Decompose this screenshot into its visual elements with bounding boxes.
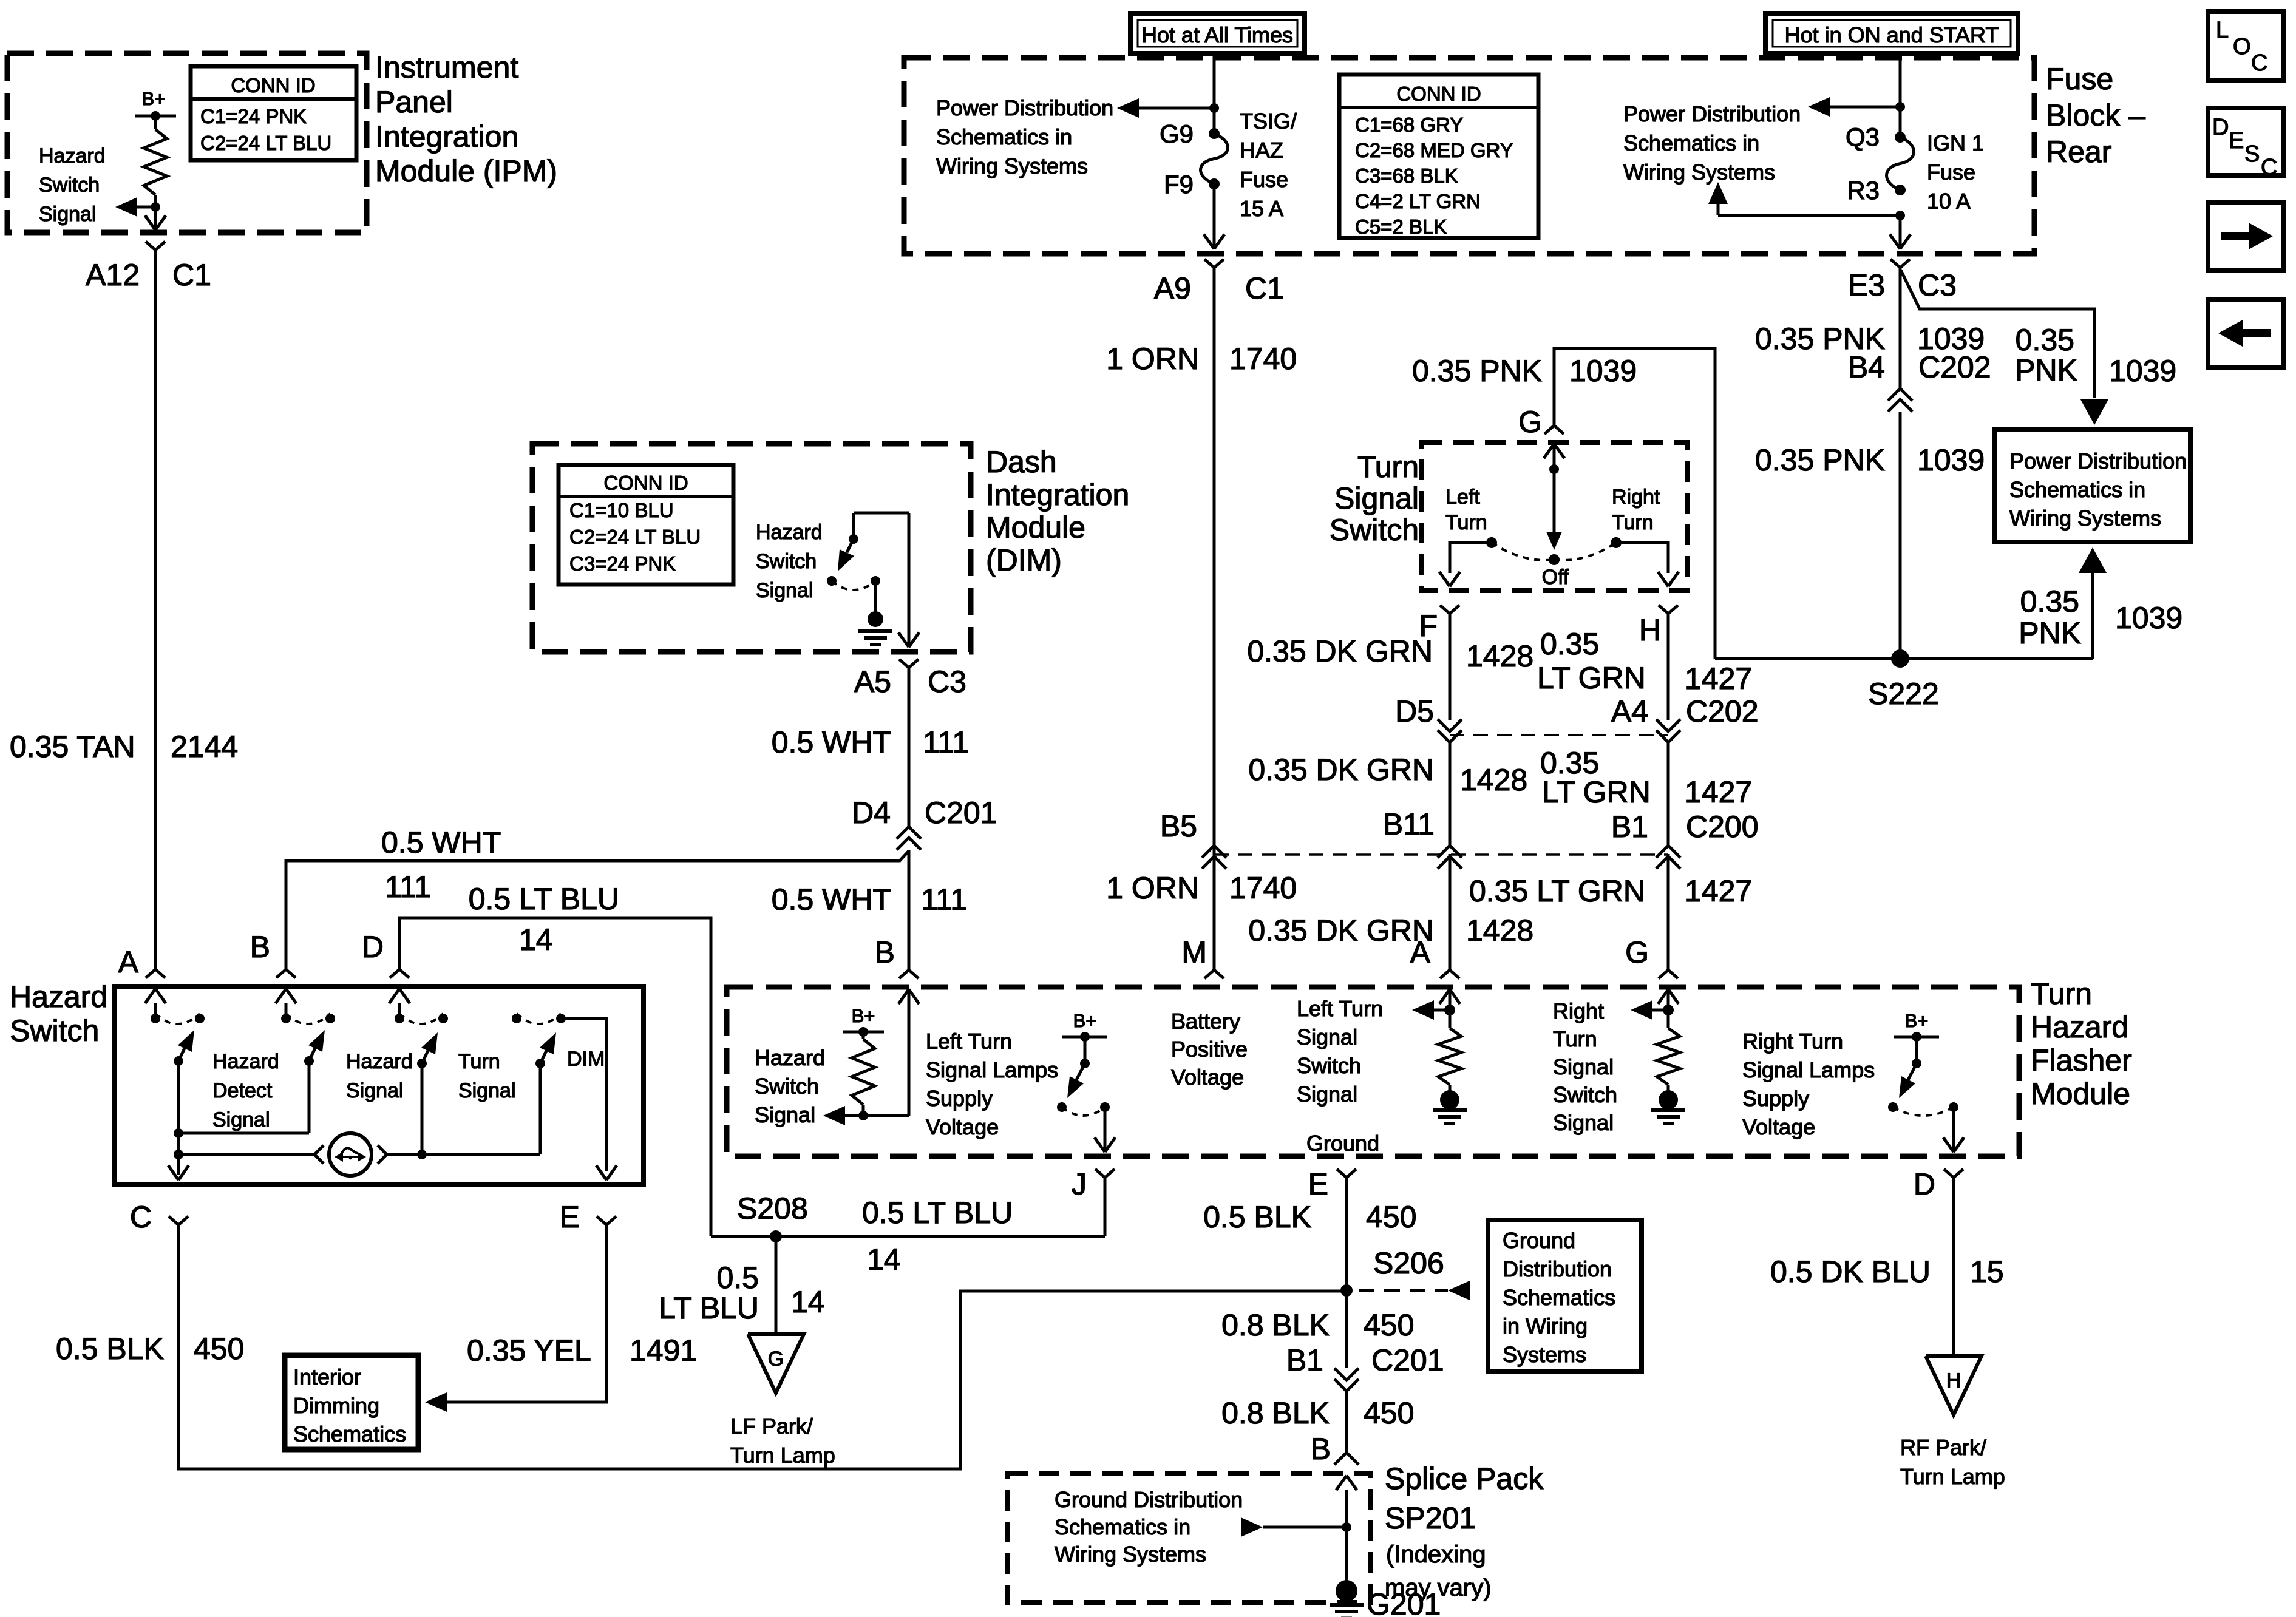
svg-text:111: 111 bbox=[923, 725, 969, 759]
dashed arc of turn signal switch bbox=[1492, 543, 1554, 560]
connector B (hazard switch) bbox=[276, 969, 286, 978]
resistor (IPM hazard switch signal pull-up) bbox=[154, 116, 157, 129]
svg-text:C202: C202 bbox=[1686, 694, 1759, 728]
svg-text:C: C bbox=[2261, 155, 2277, 180]
svg-text:0.35 PNK: 0.35 PNK bbox=[1755, 443, 1885, 477]
svg-text:Signal: Signal bbox=[1553, 1110, 1614, 1135]
node: splice below IGN fuse bbox=[1895, 211, 1905, 220]
nav box: next page arrow bbox=[2208, 202, 2283, 270]
svg-text:PNK: PNK bbox=[2019, 616, 2081, 650]
module box: Turn Signal Switch, dashed bbox=[1422, 442, 1687, 591]
node: splice to power distribution (right top) bbox=[1895, 102, 1905, 112]
svg-text:E: E bbox=[560, 1200, 580, 1234]
arrow to Power Distribution Schematics (left) bbox=[1136, 107, 1214, 110]
svg-text:Positive: Positive bbox=[1171, 1037, 1248, 1062]
wire: 0.35 LT GRN 1427 (H to A4) bbox=[1667, 614, 1670, 720]
svg-text:Signal: Signal bbox=[212, 1108, 270, 1131]
svg-text:(DIM): (DIM) bbox=[986, 543, 1062, 577]
svg-text:RF Park/: RF Park/ bbox=[1900, 1435, 1986, 1460]
svg-text:D: D bbox=[2212, 115, 2229, 140]
svg-text:C5=2 BLK: C5=2 BLK bbox=[1355, 215, 1447, 238]
svg-text:Supply: Supply bbox=[926, 1086, 993, 1111]
svg-text:Right Turn: Right Turn bbox=[1742, 1029, 1843, 1054]
svg-text:Left: Left bbox=[1445, 486, 1480, 509]
triangle connector G: LF Park/Turn Lamp bbox=[748, 1334, 804, 1393]
resistor: left turn signal switch signal bbox=[1438, 1028, 1461, 1085]
svg-text:Schematics in: Schematics in bbox=[1055, 1514, 1190, 1539]
svg-text:0.35 DK GRN: 0.35 DK GRN bbox=[1248, 914, 1434, 947]
svg-text:SP201: SP201 bbox=[1385, 1501, 1476, 1535]
svg-text:C3=24 PNK: C3=24 PNK bbox=[569, 552, 676, 575]
svg-text:0.5 LT BLU: 0.5 LT BLU bbox=[862, 1196, 1013, 1230]
lamp symbol bbox=[329, 1133, 372, 1176]
svg-text:1491: 1491 bbox=[630, 1334, 697, 1368]
connector B5 on orange wire bbox=[1202, 846, 1226, 858]
svg-text:0.5 WHT: 0.5 WHT bbox=[772, 883, 891, 917]
svg-text:Left Turn: Left Turn bbox=[1297, 996, 1383, 1021]
svg-text:Splice Pack: Splice Pack bbox=[1385, 1462, 1544, 1496]
svg-text:M: M bbox=[1181, 935, 1207, 969]
connector B (flasher) bbox=[899, 970, 909, 978]
svg-text:Signal: Signal bbox=[39, 203, 97, 226]
svg-text:1039: 1039 bbox=[1569, 354, 1637, 388]
svg-text:CONN ID: CONN ID bbox=[603, 472, 688, 494]
dashed link to ground distribution note bbox=[1359, 1289, 1448, 1292]
svg-text:Voltage: Voltage bbox=[1742, 1114, 1815, 1139]
connector A5/C3 bbox=[899, 659, 909, 668]
arrow: Hazard Switch Signal (IPM) bbox=[135, 206, 155, 209]
svg-text:C1=68 GRY: C1=68 GRY bbox=[1355, 114, 1463, 136]
connector E (flasher) bbox=[1337, 1169, 1347, 1178]
svg-text:1039: 1039 bbox=[1917, 443, 1985, 477]
svg-text:C1: C1 bbox=[1245, 271, 1284, 305]
svg-text:L: L bbox=[2216, 18, 2229, 43]
svg-text:2144: 2144 bbox=[171, 730, 238, 764]
svg-text:Ground: Ground bbox=[1306, 1131, 1379, 1156]
svg-text:Switch: Switch bbox=[1297, 1053, 1361, 1078]
pin arrow D bbox=[398, 1003, 401, 1019]
svg-text:Hot in ON and START: Hot in ON and START bbox=[1785, 22, 1999, 47]
svg-text:1740: 1740 bbox=[1229, 871, 1297, 905]
svg-text:Signal Lamps: Signal Lamps bbox=[926, 1057, 1058, 1082]
svg-text:0.35 DK GRN: 0.35 DK GRN bbox=[1247, 634, 1433, 668]
connector A9/C1 bbox=[1204, 259, 1214, 268]
svg-text:C3=68 BLK: C3=68 BLK bbox=[1355, 164, 1458, 187]
svg-text:TSIG/: TSIG/ bbox=[1240, 109, 1297, 134]
svg-text:1740: 1740 bbox=[1229, 342, 1297, 376]
svg-text:15: 15 bbox=[1970, 1255, 2004, 1289]
svg-text:A5: A5 bbox=[854, 665, 891, 699]
svg-text:0.5 LT BLU: 0.5 LT BLU bbox=[469, 882, 619, 916]
svg-text:A: A bbox=[118, 945, 139, 979]
svg-text:Switch: Switch bbox=[756, 550, 817, 573]
svg-text:0.8 BLK: 0.8 BLK bbox=[1221, 1308, 1330, 1342]
svg-text:1428: 1428 bbox=[1460, 763, 1527, 797]
wire: common feed into switch bbox=[1544, 444, 1554, 458]
module box: Splice Pack SP201, dashed bbox=[1007, 1473, 1370, 1602]
svg-text:111: 111 bbox=[921, 883, 967, 917]
svg-text:Hazard: Hazard bbox=[756, 521, 823, 544]
svg-text:1 ORN: 1 ORN bbox=[1106, 342, 1199, 376]
ground (DIM) bbox=[874, 581, 877, 612]
pin arrow G (flasher) + left arrow bbox=[1658, 989, 1668, 1004]
svg-text:G: G bbox=[1625, 935, 1649, 969]
pin arrow A bbox=[154, 1003, 157, 1019]
svg-text:0.35 TAN: 0.35 TAN bbox=[10, 730, 135, 764]
svg-text:HAZ: HAZ bbox=[1240, 138, 1283, 163]
wire: 0.5 WHT 111 (D4 to flasher B) bbox=[908, 850, 911, 970]
wire: 0.35 LT GRN 1427 (B1 to flasher G) bbox=[1667, 854, 1670, 970]
svg-text:C2=68 MED GRY: C2=68 MED GRY bbox=[1355, 139, 1513, 161]
svg-text:Left Turn: Left Turn bbox=[926, 1029, 1012, 1054]
svg-text:Instrument: Instrument bbox=[375, 50, 518, 84]
svg-text:Module: Module bbox=[986, 510, 1085, 544]
svg-text:1039: 1039 bbox=[2109, 354, 2176, 388]
svg-text:1427: 1427 bbox=[1685, 775, 1752, 809]
svg-text:E: E bbox=[1308, 1167, 1328, 1201]
svg-text:B: B bbox=[250, 930, 270, 964]
wire: 0.5 LT BLU 14 from D pin right and down to S208 bbox=[399, 918, 711, 1236]
tag box: Hot in ON and START bbox=[1765, 13, 2018, 53]
wire branch: 0.35 PNK 1039 to power distribution box bbox=[1901, 270, 2094, 398]
svg-text:Hazard: Hazard bbox=[212, 1050, 279, 1073]
svg-text:in Wiring: in Wiring bbox=[1503, 1314, 1588, 1338]
box: Interior Dimming Schematics bbox=[285, 1355, 418, 1449]
svg-text:Turn: Turn bbox=[1445, 511, 1487, 534]
svg-text:Fuse: Fuse bbox=[1240, 167, 1288, 192]
inline connector dashed line C202 bbox=[1450, 734, 1668, 736]
svg-text:Off: Off bbox=[1542, 566, 1569, 589]
svg-text:Hazard: Hazard bbox=[10, 980, 107, 1014]
svg-text:Turn: Turn bbox=[458, 1050, 500, 1073]
wire inside splice pack bbox=[1345, 1490, 1348, 1581]
svg-text:Switch: Switch bbox=[755, 1074, 819, 1099]
svg-text:D: D bbox=[1914, 1167, 1935, 1201]
svg-text:Signal Lamps: Signal Lamps bbox=[1742, 1057, 1875, 1082]
svg-text:Fuse: Fuse bbox=[2046, 62, 2113, 96]
svg-text:Wiring Systems: Wiring Systems bbox=[2009, 506, 2161, 531]
svg-text:15 A: 15 A bbox=[1240, 196, 1283, 221]
wire: 0.35 DK GRN 1428 (F to D5) bbox=[1449, 614, 1452, 720]
svg-text:0.35 PNK: 0.35 PNK bbox=[1412, 354, 1542, 388]
svg-text:H: H bbox=[1946, 1369, 1961, 1392]
wire: S208 to LF lamp bbox=[775, 1236, 778, 1333]
svg-text:C1: C1 bbox=[172, 258, 211, 292]
svg-text:IGN 1: IGN 1 bbox=[1927, 131, 1984, 155]
wire: fuse output to A9 bbox=[1213, 184, 1216, 248]
svg-text:CONN ID: CONN ID bbox=[1396, 83, 1481, 105]
wire: 0.35 DK GRN 1428 (D5 to B11) bbox=[1449, 742, 1452, 846]
svg-text:14: 14 bbox=[867, 1242, 901, 1276]
svg-text:450: 450 bbox=[1364, 1396, 1414, 1430]
svg-text:H: H bbox=[1639, 613, 1661, 647]
wire: ignition feed into IGN 1 fuse bbox=[1899, 53, 1902, 137]
svg-text:Hazard: Hazard bbox=[346, 1050, 413, 1073]
wire: 0.5 LT BLU 14 (S208 to J) bbox=[711, 1235, 1105, 1238]
svg-text:Wiring Systems: Wiring Systems bbox=[1055, 1542, 1206, 1567]
svg-text:Wiring Systems: Wiring Systems bbox=[936, 154, 1088, 178]
svg-text:J: J bbox=[1072, 1167, 1087, 1201]
svg-text:G: G bbox=[1518, 405, 1542, 439]
svg-text:Switch: Switch bbox=[1330, 513, 1419, 547]
connector G (turn signal switch) bbox=[1544, 425, 1554, 434]
svg-text:Voltage: Voltage bbox=[926, 1114, 999, 1139]
switch 3: turn signal bbox=[395, 1014, 404, 1023]
wire: 0.35 LT GRN 1427 (A4 to B1) bbox=[1667, 742, 1670, 846]
svg-text:A12: A12 bbox=[86, 258, 140, 292]
svg-text:F9: F9 bbox=[1164, 170, 1194, 198]
svg-text:C1=10 BLU: C1=10 BLU bbox=[569, 499, 674, 521]
svg-text:C2=24 LT BLU: C2=24 LT BLU bbox=[200, 132, 331, 154]
wire: 0.35 PNK 1039 down to B4 bbox=[1899, 268, 1902, 388]
svg-text:Hazard: Hazard bbox=[755, 1045, 825, 1070]
svg-text:10 A: 10 A bbox=[1927, 189, 1971, 214]
svg-text:0.5: 0.5 bbox=[716, 1261, 759, 1295]
svg-text:Detect: Detect bbox=[212, 1079, 273, 1102]
svg-text:450: 450 bbox=[1366, 1200, 1416, 1234]
svg-text:O: O bbox=[2233, 34, 2251, 59]
svg-text:Schematics: Schematics bbox=[1503, 1285, 1615, 1310]
svg-text:B4: B4 bbox=[1848, 350, 1885, 384]
CONN ID table (DIM) bbox=[559, 465, 733, 585]
svg-text:0.5 DK BLU: 0.5 DK BLU bbox=[1770, 1255, 1931, 1289]
svg-text:Hazard: Hazard bbox=[2031, 1010, 2128, 1044]
connector G (flasher) bbox=[1659, 970, 1668, 978]
svg-text:Hot at All Times: Hot at All Times bbox=[1141, 22, 1293, 47]
svg-text:Distribution: Distribution bbox=[1503, 1256, 1612, 1281]
svg-text:Integration: Integration bbox=[375, 120, 518, 154]
svg-text:Signal: Signal bbox=[756, 579, 813, 602]
svg-text:S: S bbox=[2244, 141, 2260, 167]
svg-text:B1: B1 bbox=[1611, 810, 1648, 844]
splice S208 bbox=[770, 1230, 782, 1242]
contact: Right Turn bbox=[1611, 537, 1622, 548]
svg-text:B11: B11 bbox=[1383, 807, 1435, 841]
svg-text:Supply: Supply bbox=[1742, 1086, 1809, 1111]
svg-text:0.35: 0.35 bbox=[2020, 585, 2079, 619]
svg-text:CONN ID: CONN ID bbox=[231, 74, 315, 97]
wire: switch3 to lamp rail bbox=[421, 1063, 424, 1154]
wire: 0.5 BLK 450 from C down to ground run bbox=[178, 1225, 1347, 1469]
connector E3/C3 bbox=[1890, 259, 1900, 268]
svg-text:Right: Right bbox=[1612, 486, 1660, 509]
wire: J to S208 junction bbox=[1104, 1178, 1107, 1236]
svg-text:0.35: 0.35 bbox=[1540, 627, 1599, 661]
svg-text:C202: C202 bbox=[1918, 350, 1991, 384]
svg-text:Hazard: Hazard bbox=[39, 144, 106, 168]
connector B into splice pack bbox=[1334, 1453, 1359, 1465]
svg-text:Turn: Turn bbox=[2031, 977, 2092, 1011]
wire: switch1 to C pin bbox=[177, 1061, 180, 1175]
svg-text:0.5 WHT: 0.5 WHT bbox=[772, 725, 891, 759]
svg-text:Schematics in: Schematics in bbox=[1623, 131, 1759, 155]
wire: 0.5 BLK 450 (flasher E to S206) bbox=[1345, 1178, 1348, 1290]
contact: Off bbox=[1549, 554, 1560, 565]
box: Ground Distribution Schematics in Wiring Systems bbox=[1488, 1220, 1642, 1372]
svg-text:Fuse: Fuse bbox=[1927, 160, 1975, 185]
svg-text:A: A bbox=[1410, 935, 1431, 969]
svg-text:LF Park/: LF Park/ bbox=[730, 1414, 813, 1439]
svg-text:DIM: DIM bbox=[567, 1048, 605, 1071]
svg-text:Module (IPM): Module (IPM) bbox=[375, 154, 557, 188]
svg-text:G: G bbox=[768, 1347, 784, 1371]
svg-text:Module: Module bbox=[2031, 1077, 2130, 1111]
ground: left turn resistor bbox=[1440, 1090, 1459, 1110]
svg-text:PNK: PNK bbox=[2015, 353, 2077, 387]
wire: switch2 join bbox=[308, 1061, 311, 1133]
svg-text:Turn: Turn bbox=[1612, 511, 1654, 534]
svg-text:C3: C3 bbox=[1918, 268, 1957, 302]
svg-text:Signal: Signal bbox=[1553, 1054, 1614, 1079]
svg-text:0.35 LT GRN: 0.35 LT GRN bbox=[1469, 874, 1645, 908]
svg-text:0.35: 0.35 bbox=[2016, 323, 2074, 357]
svg-text:1428: 1428 bbox=[1466, 639, 1533, 673]
svg-text:Signal: Signal bbox=[346, 1079, 404, 1102]
nav box: LOC bbox=[2208, 12, 2283, 81]
svg-text:B+: B+ bbox=[852, 1005, 875, 1026]
svg-text:Schematics in: Schematics in bbox=[936, 124, 1072, 149]
svg-text:0.5 BLK: 0.5 BLK bbox=[1203, 1200, 1311, 1234]
svg-text:1427: 1427 bbox=[1685, 874, 1752, 908]
svg-text:Schematics: Schematics bbox=[293, 1422, 406, 1446]
svg-text:Voltage: Voltage bbox=[1171, 1065, 1244, 1090]
svg-text:S206: S206 bbox=[1373, 1246, 1444, 1280]
svg-text:LT BLU: LT BLU bbox=[659, 1291, 759, 1325]
wire: 0.5 WHT 111 from B pin up and right to D4 bbox=[286, 851, 909, 969]
svg-text:450: 450 bbox=[1364, 1308, 1414, 1342]
wire: right turn output H bbox=[1616, 543, 1668, 573]
svg-text:B+: B+ bbox=[1073, 1010, 1097, 1031]
svg-text:Signal: Signal bbox=[755, 1102, 815, 1127]
svg-text:Signal: Signal bbox=[1297, 1082, 1357, 1107]
module box: Hazard Switch bbox=[115, 986, 644, 1185]
svg-text:E3: E3 bbox=[1848, 268, 1885, 302]
svg-text:Block –: Block – bbox=[2046, 98, 2145, 132]
svg-text:0.8 BLK: 0.8 BLK bbox=[1221, 1396, 1330, 1430]
wire: 0.5 DK BLU 15 (flasher D to RF lamp) bbox=[1952, 1178, 1955, 1355]
connector J (flasher) bbox=[1095, 1169, 1105, 1178]
module box: Instrument Panel Integration Module (IPM), dashed bbox=[7, 53, 367, 232]
svg-text:B+: B+ bbox=[142, 88, 166, 109]
svg-text:0.5 WHT: 0.5 WHT bbox=[381, 825, 501, 859]
arrow: ground distribution inside splice pack bbox=[1241, 1517, 1263, 1537]
module box: Fuse Block - Rear, dashed bbox=[904, 58, 2034, 254]
connector A (flasher) bbox=[1440, 970, 1450, 978]
wire: 1 ORN 1740 (A9 to flasher M) bbox=[1213, 268, 1216, 970]
svg-text:Signal: Signal bbox=[1334, 481, 1419, 515]
svg-text:1039: 1039 bbox=[2115, 601, 2182, 635]
pin arrow B (flasher) bbox=[898, 989, 909, 1004]
svg-text:C200: C200 bbox=[1686, 810, 1759, 844]
svg-text:S222: S222 bbox=[1868, 677, 1939, 711]
svg-text:Power Distribution: Power Distribution bbox=[1623, 101, 1801, 126]
wire: left turn output F bbox=[1450, 543, 1492, 573]
node: splice to power distribution (left) bbox=[1209, 103, 1219, 113]
svg-text:Switch: Switch bbox=[10, 1014, 99, 1048]
svg-text:Dimming: Dimming bbox=[293, 1393, 379, 1418]
connector D (hazard switch) bbox=[390, 969, 399, 978]
svg-text:0.35 DK GRN: 0.35 DK GRN bbox=[1248, 753, 1434, 787]
svg-text:Turn: Turn bbox=[1553, 1026, 1597, 1051]
connector A (hazard switch) bbox=[146, 969, 155, 978]
svg-text:E: E bbox=[2229, 128, 2244, 154]
arrow: feed back up to power distribution bbox=[1718, 214, 1900, 217]
svg-text:Flasher: Flasher bbox=[2031, 1043, 2132, 1077]
svg-text:Power Distribution: Power Distribution bbox=[936, 95, 1113, 120]
svg-text:C3: C3 bbox=[928, 665, 966, 699]
connector A12/C1 bbox=[146, 242, 155, 250]
triangle connector H: RF Park/Turn Lamp bbox=[1926, 1356, 1982, 1415]
ground: right turn resistor bbox=[1659, 1090, 1678, 1110]
svg-text:Turn Lamp: Turn Lamp bbox=[730, 1443, 835, 1468]
connector H bbox=[1659, 605, 1668, 614]
svg-text:Signal: Signal bbox=[1297, 1025, 1357, 1049]
svg-text:D5: D5 bbox=[1395, 694, 1434, 728]
connector E (hazard switch) bbox=[597, 1216, 606, 1225]
svg-text:111: 111 bbox=[385, 870, 431, 904]
svg-text:Interior: Interior bbox=[293, 1364, 361, 1389]
svg-text:B: B bbox=[875, 935, 895, 969]
svg-text:D: D bbox=[362, 930, 384, 964]
svg-text:0.5 BLK: 0.5 BLK bbox=[56, 1332, 164, 1366]
svg-text:Rear: Rear bbox=[2046, 135, 2111, 169]
svg-text:B+: B+ bbox=[1905, 1010, 1929, 1031]
svg-text:Switch: Switch bbox=[39, 174, 100, 197]
svg-text:Ground Distribution: Ground Distribution bbox=[1055, 1487, 1243, 1512]
svg-text:14: 14 bbox=[519, 923, 553, 957]
svg-text:Ground: Ground bbox=[1503, 1228, 1575, 1253]
connector C (hazard switch) bbox=[169, 1216, 178, 1225]
inline connector dashed line C200/B5 level bbox=[1214, 853, 1668, 856]
svg-text:C1=24 PNK: C1=24 PNK bbox=[200, 105, 307, 127]
connector D (flasher) bbox=[1944, 1169, 1954, 1178]
ground G201 bbox=[1336, 1580, 1357, 1602]
wire: DIM output to A5 bbox=[908, 513, 911, 646]
wire: 0.8 BLK 450 (C201 to splice pack B) bbox=[1345, 1391, 1348, 1453]
svg-text:Schematics in: Schematics in bbox=[2009, 477, 2145, 502]
svg-text:LT GRN: LT GRN bbox=[1542, 775, 1651, 809]
svg-text:A9: A9 bbox=[1154, 271, 1191, 305]
svg-text:C: C bbox=[2251, 50, 2267, 76]
module box: Dash Integration Module (DIM), dashed bbox=[532, 444, 971, 652]
module box: Turn Hazard Flasher Module, dashed bbox=[727, 987, 2019, 1156]
switch 1: hazard detect bbox=[151, 1014, 160, 1023]
svg-text:C2=24 LT BLU: C2=24 LT BLU bbox=[569, 526, 701, 548]
svg-text:Q3: Q3 bbox=[1846, 123, 1880, 151]
svg-text:Wiring Systems: Wiring Systems bbox=[1623, 160, 1775, 185]
pin arrow A (flasher) + left arrow bbox=[1439, 989, 1450, 1004]
nav box: DESC bbox=[2208, 108, 2283, 175]
svg-text:G201: G201 bbox=[1367, 1587, 1441, 1617]
splice S222 bbox=[1715, 657, 2093, 660]
box: Power Distribution Schematics in Wiring Systems bbox=[1994, 430, 2190, 542]
svg-text:B: B bbox=[1311, 1432, 1331, 1466]
svg-text:C201: C201 bbox=[1371, 1343, 1444, 1377]
pin arrow B bbox=[285, 1003, 288, 1019]
svg-text:R3: R3 bbox=[1847, 176, 1880, 205]
svg-text:Signal: Signal bbox=[458, 1079, 516, 1102]
lamp rail with illumination lamp bbox=[178, 1153, 314, 1156]
connector F bbox=[1440, 605, 1450, 614]
svg-text:A4: A4 bbox=[1611, 694, 1648, 728]
svg-text:C201: C201 bbox=[925, 796, 997, 830]
node: hazard switch signal (IPM) bbox=[151, 202, 160, 212]
connector M (flasher) bbox=[1204, 970, 1214, 978]
wire: 0.8 BLK 450 (S206 to B1/C201) bbox=[1345, 1290, 1348, 1368]
svg-text:S208: S208 bbox=[737, 1192, 808, 1225]
wire: DIM contact to E pin bbox=[561, 1019, 606, 1171]
svg-text:0.35 YEL: 0.35 YEL bbox=[467, 1334, 591, 1368]
